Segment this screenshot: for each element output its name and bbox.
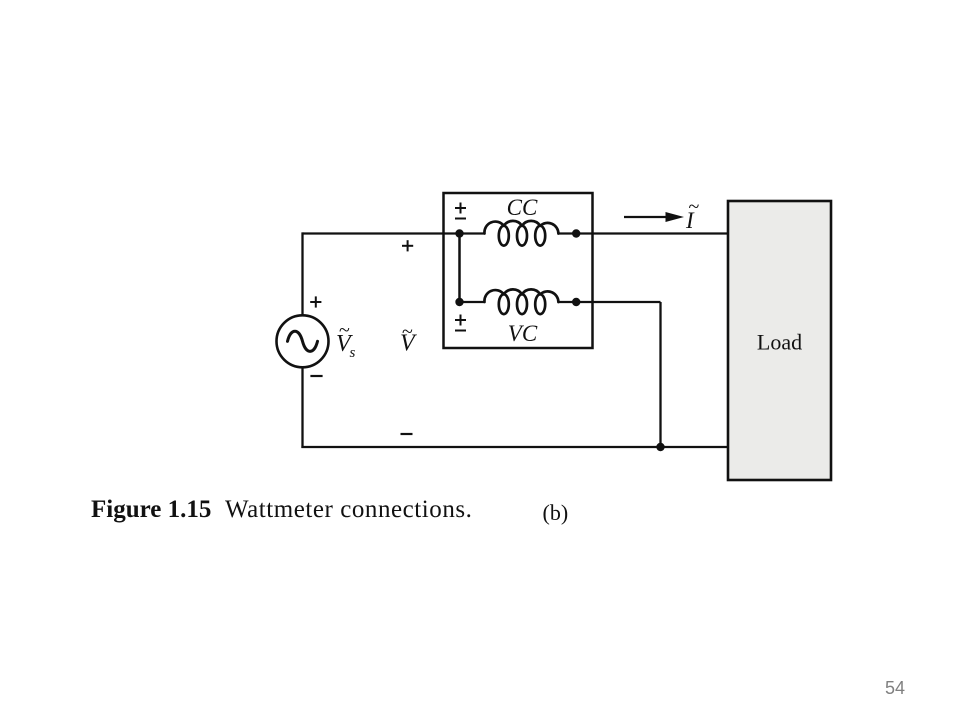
- svg-text:CC: CC: [507, 195, 538, 220]
- caption: Figure 1.15 Wattmeter connections.: [91, 496, 472, 524]
- node: VC input terminal dot: [455, 298, 463, 306]
- wire: vertical link between CC and VC input terminals: [458, 234, 461, 303]
- polarity mark: plus-minus at CC input: [455, 203, 466, 219]
- svg-text:VC: VC: [508, 321, 538, 346]
- current arrow: [624, 216, 668, 218]
- wire: VC right horizontal stub: [558, 301, 578, 303]
- AC source V1 circle: [277, 315, 329, 367]
- label (b): [543, 500, 569, 526]
- svg-text:Load: Load: [757, 330, 802, 355]
- svg-text:~: ~: [689, 196, 700, 218]
- svg-text:~: ~: [402, 321, 413, 343]
- node: CC output terminal dot: [572, 229, 580, 237]
- wire: VC left horizontal stub: [460, 301, 485, 303]
- node: VC output terminal dot: [572, 298, 580, 306]
- polarity mark: plus for V at top: [402, 240, 413, 251]
- polarity mark: minus for V at bottom: [401, 433, 413, 435]
- polarity mark: minus below source: [310, 375, 322, 377]
- AC source sine symbol: [288, 331, 318, 351]
- wire: top horizontal from source to CC coil: [303, 232, 485, 234]
- inductor VC (voltage coil): [484, 289, 558, 314]
- wire: top horizontal from CC coil to load: [558, 232, 728, 234]
- junction dot on bottom wire: [656, 443, 664, 451]
- svg-text:~: ~: [339, 320, 350, 342]
- wattmeter box: [444, 193, 593, 348]
- node: CC input terminal dot: [455, 229, 463, 237]
- wire: left vertical upper (source + terminal to top wire): [301, 232, 303, 316]
- page number 54: [885, 678, 905, 699]
- wire: bottom horizontal from source to load: [301, 446, 728, 448]
- wire: VC coil output to the right: [576, 301, 661, 303]
- polarity mark: plus above source: [310, 296, 321, 307]
- svg-text:s: s: [350, 345, 356, 361]
- polarity mark: plus-minus at VC input: [455, 315, 466, 331]
- wire: vertical drop from VC wire down to bottom wire: [659, 302, 661, 447]
- wire: left vertical lower (source - terminal to bottom wire): [301, 367, 303, 448]
- load box: [728, 201, 831, 480]
- inductor CC (current coil): [484, 221, 558, 246]
